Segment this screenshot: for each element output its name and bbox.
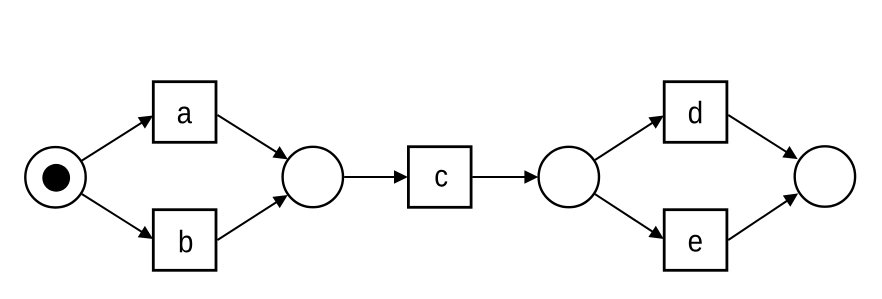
label "e" [689,235,702,252]
label "c" [435,170,447,187]
transition e [664,210,727,271]
transition b [153,210,216,271]
arc transition b to place p2 [218,196,288,241]
arc place p2 to transition c [344,171,407,183]
arc transition c to place p3 [473,171,538,183]
place p4 (sink) [795,146,855,206]
arc transition e to place p4 [728,194,797,240]
place p2 [283,147,343,207]
transition d [664,82,727,143]
place p1 (source) [25,147,85,207]
place p3 [539,147,599,207]
label "b" [180,230,192,253]
arc place p3 to transition d [595,116,663,160]
transition c [408,147,471,208]
arc place p1 to transition a [82,116,152,161]
arc place p3 to transition e [595,194,663,238]
label "d" [689,101,701,124]
transition a [153,82,216,143]
token in place p1 [42,164,70,192]
arc place p1 to transition b [82,194,152,238]
arc transition d to place p4 [728,115,797,159]
arc transition a to place p2 [218,115,288,159]
label "a" [178,107,192,124]
